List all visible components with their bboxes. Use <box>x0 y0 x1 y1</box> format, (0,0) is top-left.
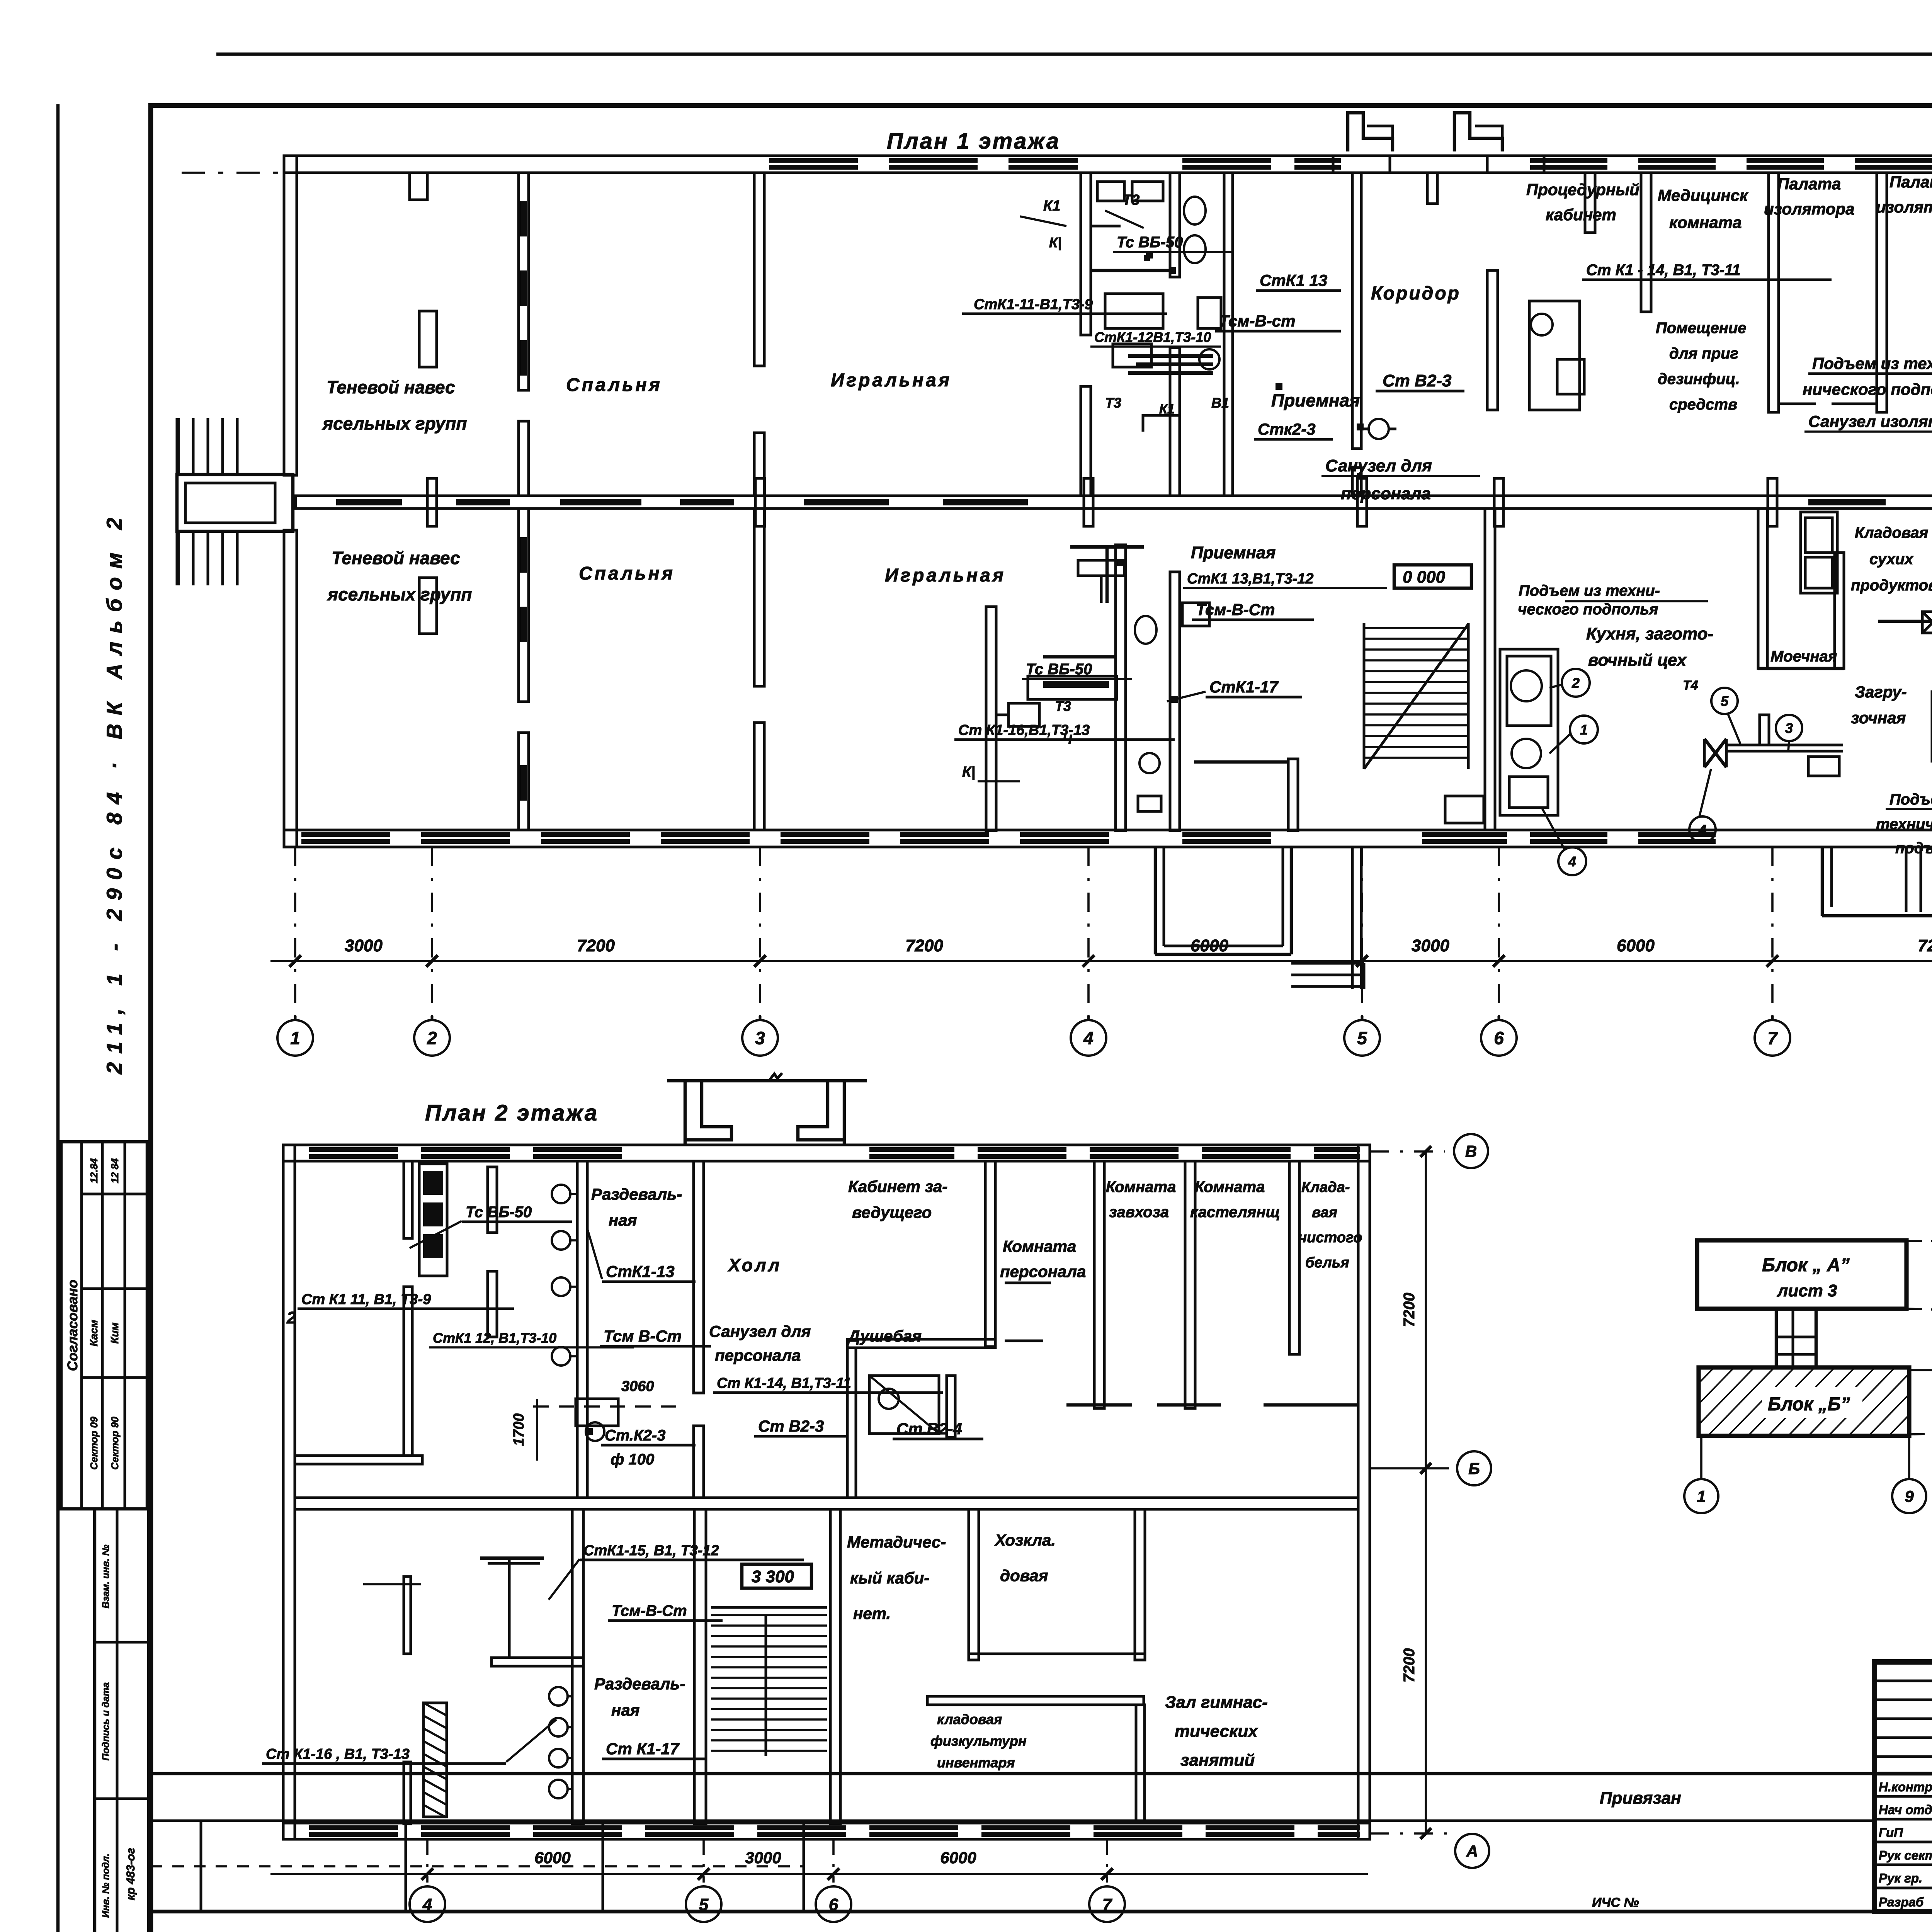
svg-text:6000: 6000 <box>534 1849 570 1867</box>
svg-text:Хозкла.: Хозкла. <box>994 1531 1056 1549</box>
svg-text:3: 3 <box>1785 720 1793 736</box>
svg-text:Разраб: Разраб <box>1879 1895 1924 1909</box>
plan1 left entrance porch with steps <box>177 474 293 531</box>
svg-text:Тсм В-Ст: Тсм В-Ст <box>604 1327 682 1345</box>
plan1 level mark 0.000 <box>1394 565 1471 588</box>
svg-text:Т3: Т3 <box>1122 192 1139 208</box>
svg-text:7200: 7200 <box>577 936 615 955</box>
svg-text:СтК1-11-В1,Т3-9: СтК1-11-В1,Т3-9 <box>974 296 1093 313</box>
svg-text:ческого подполья: ческого подполья <box>1518 601 1658 618</box>
plan1 staff WC fixtures <box>1369 419 1389 439</box>
plan2 right outer wall <box>1358 1145 1370 1839</box>
plan1 partition Палата-Палата <box>1877 173 1887 412</box>
svg-text:Т4: Т4 <box>1683 678 1698 693</box>
svg-text:12 84: 12 84 <box>109 1158 121 1184</box>
svg-text:довая: довая <box>1000 1566 1048 1585</box>
plan1 corridor left wall with cap <box>1333 156 1390 173</box>
svg-text:1: 1 <box>1697 1487 1706 1505</box>
svg-text:Тсм-В-ст: Тсм-В-ст <box>1219 312 1296 330</box>
svg-text:дезинфиц.: дезинфиц. <box>1658 371 1740 388</box>
plan1 top entrance porches <box>1348 113 1393 151</box>
svg-text:В1: В1 <box>1211 395 1229 411</box>
svg-text:План 1 этажа: План 1 этажа <box>887 129 1060 154</box>
svg-text:Ст К1 11, В1, Т3-9: Ст К1 11, В1, Т3-9 <box>301 1291 431 1308</box>
svg-text:Клада-: Клада- <box>1301 1179 1350 1196</box>
svg-text:6000: 6000 <box>1190 936 1228 955</box>
plan1 dimension line <box>270 960 1932 962</box>
plan2 T symbol lower <box>488 1562 540 1565</box>
svg-text:кый каби-: кый каби- <box>850 1569 929 1587</box>
svg-text:4: 4 <box>1698 822 1706 838</box>
svg-text:ф 100: ф 100 <box>611 1451 654 1468</box>
bottom table lower band <box>151 1910 1932 1913</box>
svg-text:ГиП: ГиП <box>1879 1825 1903 1840</box>
svg-text:белья: белья <box>1305 1255 1349 1271</box>
plan2 кладовая физкульт walls <box>927 1696 1144 1705</box>
plan2 sink units upper-left <box>419 1164 447 1276</box>
svg-text:Подъем из тех-: Подъем из тех- <box>1812 354 1932 372</box>
plan2 left outer wall <box>283 1145 295 1839</box>
svg-text:7200: 7200 <box>1918 936 1932 955</box>
svg-text:Комната: Комната <box>1003 1237 1076 1255</box>
svg-text:Тсм-В-Ст: Тсм-В-Ст <box>612 1602 687 1619</box>
svg-text:Блок „ А”: Блок „ А” <box>1762 1255 1850 1276</box>
plan1 canopy pilasters <box>410 173 427 200</box>
plan1 circled 5 and 3 valve area <box>1711 688 1738 714</box>
svg-text:Комната: Комната <box>1106 1179 1176 1196</box>
plan2 hall left wall <box>694 1161 704 1393</box>
svg-text:Подъем из: Подъем из <box>1889 791 1932 808</box>
svg-text:Ст К1-16 , В1, Т3-13: Ст К1-16 , В1, Т3-13 <box>266 1746 410 1762</box>
svg-text:Ст В2-3: Ст В2-3 <box>758 1417 824 1435</box>
plan2 wall Кабинет заведующего <box>985 1161 995 1347</box>
plan1 wall at reception upper <box>1081 173 1091 335</box>
svg-text:1700: 1700 <box>511 1413 527 1446</box>
plan2 right axis circles В Б А <box>1370 1150 1445 1153</box>
plan2 small stubs in middle band <box>1005 1282 1051 1284</box>
svg-text:Процедурный: Процедурный <box>1526 180 1639 199</box>
svg-text:Т3: Т3 <box>1055 698 1071 714</box>
svg-text:инвентаря: инвентаря <box>937 1755 1015 1770</box>
plan1 kitchen stove block <box>1500 649 1558 815</box>
plan1 bottom porch col4-5 <box>1154 847 1157 954</box>
svg-text:Комната: Комната <box>1195 1179 1265 1196</box>
svg-text:ясельных групп: ясельных групп <box>327 584 472 604</box>
plan2 lower stairwell walls <box>572 1509 583 1824</box>
plan2 wall метод кабинет left <box>830 1509 840 1824</box>
svg-text:Игральная: Игральная <box>885 565 1006 586</box>
svg-text:Стк2-3: Стк2-3 <box>1258 420 1316 438</box>
plan2 sanitary middle cluster <box>576 1399 618 1426</box>
svg-text:комната: комната <box>1669 213 1742 231</box>
svg-text:Касм: Касм <box>88 1320 100 1346</box>
svg-text:Метадичес-: Метадичес- <box>847 1533 946 1551</box>
svg-text:Кладовая: Кладовая <box>1855 524 1928 541</box>
plan1 wall between WC and Процедурный <box>1585 173 1595 233</box>
bottom table row Привязан <box>151 1772 1874 1775</box>
svg-text:для приг: для приг <box>1669 345 1738 362</box>
svg-text:Тс ВБ-50: Тс ВБ-50 <box>1026 661 1092 678</box>
plan1 upper cluster fixtures <box>1184 197 1206 224</box>
svg-text:2: 2 <box>427 1028 437 1048</box>
plan2 right vertical dim 7200s <box>1425 1151 1427 1833</box>
plan2 wall Санузел-Душевая <box>847 1348 856 1498</box>
plan1 T furniture symbol lower <box>1070 545 1144 549</box>
svg-text:персонала: персонала <box>715 1346 801 1364</box>
svg-text:Моечная: Моечная <box>1770 648 1837 665</box>
svg-text:4: 4 <box>1568 854 1576 869</box>
plan1 wall lower x3334 and ledge <box>1288 759 1298 831</box>
left stamp boxes lower <box>93 1509 96 1932</box>
svg-text:средств: средств <box>1669 396 1737 413</box>
svg-text:Игральная: Игральная <box>831 370 952 391</box>
svg-text:5: 5 <box>1721 693 1729 709</box>
plan1 lower bedroom-playroom wall <box>754 509 764 686</box>
svg-text:7200: 7200 <box>905 936 943 955</box>
svg-text:изолятора: изолятора <box>1876 198 1932 216</box>
svg-text:Блок „Б”: Блок „Б” <box>1768 1394 1850 1415</box>
svg-text:Тс ВБ-50: Тс ВБ-50 <box>466 1204 532 1221</box>
plan1 wall bedroom-playroom upper <box>754 173 764 366</box>
svg-text:6: 6 <box>829 1895 838 1914</box>
svg-text:Ст К1 - 14, В1, Т3-11: Ст К1 - 14, В1, Т3-11 <box>1586 262 1741 279</box>
svg-text:ная: ная <box>611 1701 639 1719</box>
title block outer border <box>1874 1662 1932 1912</box>
svg-text:План 2 этажа: План 2 этажа <box>425 1100 599 1126</box>
svg-text:ясельных групп: ясельных групп <box>321 413 467 434</box>
svg-text:7: 7 <box>1767 1028 1778 1048</box>
plan1 upper cluster counter bars <box>1128 354 1213 358</box>
key plan Блок А rectangle <box>1697 1240 1906 1309</box>
plan1 corridor walls extension below <box>1351 847 1354 989</box>
svg-text:3 300: 3 300 <box>752 1567 794 1586</box>
svg-text:занятий: занятий <box>1180 1751 1255 1770</box>
svg-text:кр 483-ог: кр 483-ог <box>124 1848 137 1900</box>
svg-text:Зал гимнас-: Зал гимнас- <box>1165 1693 1268 1712</box>
plan1 central spine wall <box>296 496 1932 509</box>
svg-text:Ст К1-16,В1,Т3-13: Ст К1-16,В1,Т3-13 <box>958 722 1090 738</box>
svg-text:вочный цех: вочный цех <box>1588 651 1687 670</box>
sheet outer thin border lines <box>216 53 1932 56</box>
svg-text:6000: 6000 <box>1617 936 1655 955</box>
plan1 bottom porch steps col7 <box>1821 847 1824 916</box>
svg-text:2: 2 <box>1571 675 1580 691</box>
svg-text:Приемная: Приемная <box>1191 543 1276 562</box>
svg-text:Медицинск: Медицинск <box>1658 186 1748 204</box>
svg-text:3: 3 <box>755 1028 765 1048</box>
plan1 top outer wall <box>284 156 1932 173</box>
plan2 top entrance vestibule <box>685 1082 731 1145</box>
plan1 wall between shade canopy and bedroom <box>519 173 529 390</box>
plan2 lower stair hatched <box>711 1614 827 1616</box>
svg-text:СтК1-17: СтК1-17 <box>1209 678 1279 696</box>
svg-text:Кухня, загото-: Кухня, загото- <box>1586 624 1713 643</box>
svg-text:3000: 3000 <box>345 936 383 955</box>
svg-text:Палата: Палата <box>1777 175 1841 193</box>
svg-text:Тс ВБ-50: Тс ВБ-50 <box>1117 234 1183 251</box>
svg-text:Рук гр.: Рук гр. <box>1879 1871 1922 1885</box>
plan1 kitchen valve assembly <box>1727 744 1843 747</box>
svg-text:сухих: сухих <box>1869 551 1914 568</box>
svg-text:Рук сект: Рук сект <box>1879 1848 1932 1862</box>
plan2 lower-left fixtures <box>423 1703 447 1817</box>
svg-text:1: 1 <box>1580 722 1588 738</box>
svg-text:СтК1-13: СтК1-13 <box>606 1262 675 1281</box>
plan2 wall Комната кастелянши left <box>1185 1161 1195 1408</box>
svg-text:вая: вая <box>1312 1204 1337 1221</box>
svg-text:Загру-: Загру- <box>1855 683 1907 701</box>
plan1 моечная walls <box>1758 509 1767 668</box>
svg-text:ная: ная <box>609 1211 637 1229</box>
svg-text:кастелянщ: кастелянщ <box>1190 1204 1280 1221</box>
svg-text:7200: 7200 <box>1401 1648 1418 1683</box>
plan1 corridor right wall <box>1487 270 1498 410</box>
svg-text:В: В <box>1465 1142 1477 1160</box>
svg-text:физкультурн: физкультурн <box>930 1733 1027 1749</box>
svg-text:Ст.К2-3: Ст.К2-3 <box>605 1427 665 1444</box>
svg-text:Санузел изолятора: Санузел изолятора <box>1808 412 1932 430</box>
svg-text:Т3: Т3 <box>1105 395 1121 411</box>
plan1 lower WC fixtures <box>1139 753 1160 773</box>
plan1 upper sanitary cluster walls <box>1170 173 1180 277</box>
key plan Блок Б rectangle hatched <box>1699 1367 1909 1436</box>
key plan axis leaders and circles <box>1906 1240 1932 1242</box>
plan2 хозкладовая walls <box>969 1509 979 1660</box>
svg-text:нического подполья: нического подполья <box>1803 380 1932 398</box>
svg-text:6: 6 <box>1494 1028 1504 1048</box>
svg-text:К|: К| <box>962 764 975 780</box>
svg-text:Ким: Ким <box>109 1322 121 1344</box>
svg-text:Б: Б <box>1468 1459 1480 1478</box>
svg-text:Теневой навес: Теневой навес <box>327 377 455 397</box>
svg-text:Ст К1-17: Ст К1-17 <box>606 1740 680 1758</box>
svg-text:3060: 3060 <box>621 1378 654 1395</box>
svg-text:ИЧС №: ИЧС № <box>1592 1895 1639 1910</box>
svg-text:СтК1-15, В1, Т3-12: СтК1-15, В1, Т3-12 <box>583 1543 719 1559</box>
svg-text:Ст К1-14, В1,Т3-11: Ст К1-14, В1,Т3-11 <box>717 1375 851 1391</box>
svg-text:персонала: персонала <box>1000 1262 1086 1281</box>
svg-text:продуктов: продуктов <box>1851 577 1932 594</box>
svg-text:Кабинет за-: Кабинет за- <box>848 1177 947 1196</box>
svg-text:подъполья: подъполья <box>1895 840 1932 857</box>
svg-text:Палата: Палата <box>1889 173 1932 191</box>
svg-text:тических: тических <box>1175 1722 1258 1741</box>
svg-text:2: 2 <box>286 1308 296 1327</box>
svg-text:изолятора: изолятора <box>1764 200 1855 218</box>
plan2 wall y3770 left <box>295 1456 422 1464</box>
plan1 left outer wall <box>284 156 297 475</box>
svg-text:Сектор 09: Сектор 09 <box>88 1417 100 1470</box>
plan1 lower sanitary cluster <box>1116 545 1126 831</box>
svg-text:5: 5 <box>1357 1028 1367 1048</box>
plan2 wall Кладовая чистого белья left <box>1289 1161 1299 1354</box>
plan2 top outer wall <box>283 1145 1370 1161</box>
plan1 junction dots <box>1169 267 1176 274</box>
svg-text:СтК1 12, В1,Т3-10: СтК1 12, В1,Т3-10 <box>433 1330 556 1346</box>
plan2 central spine wall <box>295 1498 1358 1509</box>
svg-text:Подъем из техни-: Подъем из техни- <box>1519 582 1660 599</box>
plan2 wall stubs x1262 <box>488 1167 497 1233</box>
plan1 axis circles 1-9 <box>277 1020 313 1056</box>
plan2 axis circles 4 5 6 7 <box>410 1886 445 1922</box>
svg-text:нет.: нет. <box>853 1604 891 1622</box>
svg-text:1: 1 <box>290 1028 300 1048</box>
svg-text:7: 7 <box>1102 1895 1113 1914</box>
svg-text:завхоза: завхоза <box>1109 1204 1169 1221</box>
svg-text:Спальня: Спальня <box>566 375 662 395</box>
svg-text:0 000: 0 000 <box>1403 568 1446 587</box>
svg-text:Холл: Холл <box>727 1255 782 1275</box>
svg-text:СтК1 13: СтК1 13 <box>1260 271 1327 289</box>
plan2 dimension drops and line <box>426 1839 429 1883</box>
plan1 stair center hatched <box>1364 627 1468 629</box>
svg-text:Подпись и дата: Подпись и дата <box>100 1682 111 1761</box>
plan1 partition Процедурный-Медицинск <box>1641 173 1651 312</box>
svg-text:Спальня: Спальня <box>579 563 675 584</box>
plan1 axis В dashed line <box>182 172 1932 174</box>
plan1 porch steps right col4-5 <box>1291 962 1364 965</box>
svg-text:технического: технического <box>1876 816 1932 833</box>
svg-text:лист 3: лист 3 <box>1777 1281 1837 1300</box>
svg-text:Ст.В2-4: Ст.В2-4 <box>896 1420 962 1438</box>
svg-text:Сектор 90: Сектор 90 <box>109 1417 121 1470</box>
svg-text:6000: 6000 <box>940 1849 976 1867</box>
svg-text:7200: 7200 <box>1401 1293 1418 1327</box>
plan2 wall right of Раздевальная upper <box>577 1161 587 1498</box>
plan1 kitchen callout circles <box>1562 669 1590 697</box>
plan1 column axis dashed drops <box>294 847 296 1016</box>
plan1 bottom outer wall <box>284 830 1932 847</box>
svg-text:А: А <box>1466 1842 1478 1860</box>
plan2 T-wall pieces left room <box>404 1161 412 1238</box>
svg-text:5: 5 <box>699 1895 709 1914</box>
plan1 kitchen sink <box>1445 796 1484 823</box>
left stamp box Согласовано <box>61 1142 147 1509</box>
key plan connector <box>1775 1309 1778 1367</box>
plan1 lower canopy wall with windows <box>519 509 529 702</box>
svg-text:чистого: чистого <box>1298 1230 1362 1246</box>
svg-text:Привязан: Привязан <box>1600 1789 1681 1808</box>
plan1 riser wall x3168 upper <box>1224 173 1233 496</box>
svg-text:9: 9 <box>1905 1487 1914 1505</box>
svg-text:СтК1 13,В1,Т3-12: СтК1 13,В1,Т3-12 <box>1187 571 1314 587</box>
plan2 toilets along wall <box>552 1185 570 1203</box>
plan1 partition Медицинск-Палата <box>1769 173 1779 412</box>
svg-text:зочная: зочная <box>1851 709 1906 727</box>
plan2 Душевая walls and fixtures <box>869 1376 939 1434</box>
svg-text:СтК1-12В1,Т3-10: СтК1-12В1,Т3-10 <box>1094 329 1211 345</box>
svg-text:Согласовано: Согласовано <box>65 1280 80 1371</box>
svg-text:Санузел для: Санузел для <box>709 1322 811 1340</box>
svg-text:кабинет: кабинет <box>1546 206 1616 224</box>
svg-text:Ст В2-3: Ст В2-3 <box>1383 371 1452 390</box>
svg-text:К|: К| <box>1049 235 1061 250</box>
svg-text:персонала: персонала <box>1341 484 1431 503</box>
svg-text:Теневой навес: Теневой навес <box>332 548 460 568</box>
svg-text:К1: К1 <box>1159 402 1175 417</box>
svg-text:Помещение: Помещение <box>1656 320 1747 337</box>
svg-text:4: 4 <box>1083 1028 1094 1048</box>
svg-text:Приемная: Приемная <box>1271 390 1360 410</box>
key plan bottom circles 1 and 9 <box>1700 1436 1702 1479</box>
svg-text:кладовая: кладовая <box>937 1711 1002 1727</box>
svg-text:3000: 3000 <box>745 1849 781 1867</box>
plan1 fridge unit <box>1801 512 1837 593</box>
svg-text:Душебая: Душебая <box>847 1327 922 1345</box>
svg-text:Нач отд: Нач отд <box>1879 1803 1932 1817</box>
svg-text:Коридор: Коридор <box>1371 283 1461 304</box>
svg-text:Инв. № подл.: Инв. № подл. <box>100 1854 111 1918</box>
svg-text:К1: К1 <box>1043 198 1061 214</box>
plan2 bottom outer wall <box>283 1823 1370 1839</box>
svg-text:ведущего: ведущего <box>852 1203 932 1221</box>
svg-text:4: 4 <box>422 1895 432 1914</box>
svg-text:Взам. инв. №: Взам. инв. № <box>100 1544 111 1608</box>
svg-text:Раздеваль-: Раздеваль- <box>594 1675 685 1693</box>
svg-text:12.84: 12.84 <box>88 1158 100 1184</box>
svg-text:Раздеваль-: Раздеваль- <box>591 1185 682 1203</box>
plan1 wall between stair and kitchen <box>1485 509 1495 830</box>
plan2 wall Комната завхоза left <box>1094 1161 1104 1408</box>
svg-text:3000: 3000 <box>1412 936 1449 955</box>
svg-text:Н.контр: Н.контр <box>1879 1780 1932 1794</box>
plan1 wall stub between top porches <box>1427 173 1437 204</box>
plan2 level mark 3.300 <box>742 1564 811 1588</box>
svg-text:Тсм-В-Ст: Тсм-В-Ст <box>1196 600 1275 619</box>
svg-text:Санузел для: Санузел для <box>1325 456 1432 475</box>
plan1 wall lower x2565 <box>986 607 996 831</box>
